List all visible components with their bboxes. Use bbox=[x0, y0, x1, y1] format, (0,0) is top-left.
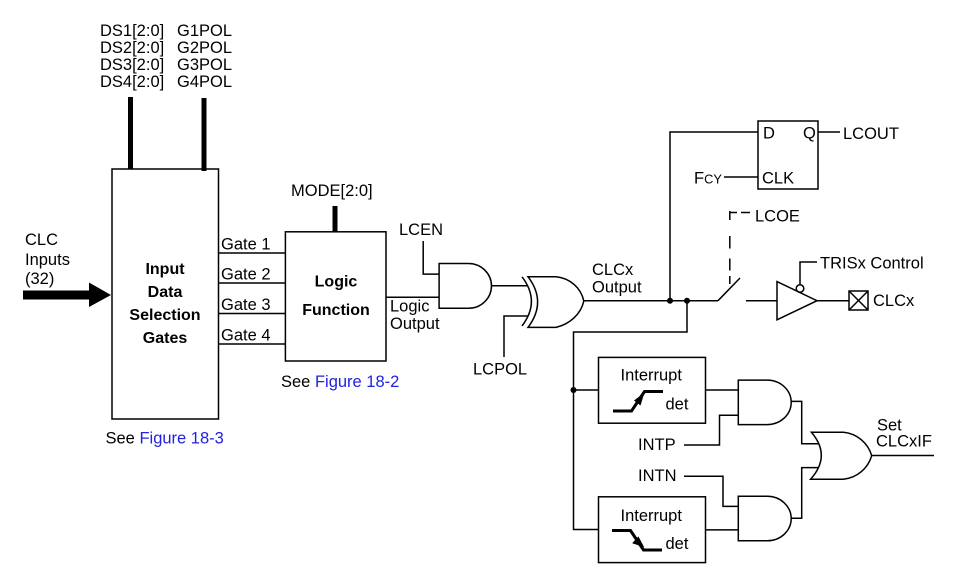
wire FCY to CLK bbox=[724, 176, 758, 178]
svg-text:Input: Input bbox=[145, 261, 185, 278]
wire Gate 3 bbox=[219, 313, 286, 315]
svg-text:INTP: INTP bbox=[638, 436, 676, 454]
block U1 Input Data Selection Gates bbox=[112, 169, 219, 419]
bus wire MODE bbox=[333, 206, 338, 232]
block U8 falling interrupt det bbox=[599, 497, 706, 563]
svg-text:D: D bbox=[763, 125, 775, 143]
svg-text:Interrupt: Interrupt bbox=[621, 367, 683, 385]
svg-text:LCPOL: LCPOL bbox=[473, 361, 527, 379]
svg-text:Interrupt: Interrupt bbox=[621, 507, 683, 525]
wire CLCx output bbox=[584, 300, 718, 302]
svg-text:DS2[2:0]: DS2[2:0] bbox=[100, 39, 164, 57]
svg-text:G1POL: G1POL bbox=[177, 22, 232, 40]
svg-text:FCY: FCY bbox=[694, 170, 722, 188]
svg-text:LCOUT: LCOUT bbox=[843, 125, 899, 143]
svg-text:MODE[2:0]: MODE[2:0] bbox=[291, 182, 373, 200]
junction node C bbox=[571, 387, 577, 393]
node label Set CLCxIF bbox=[876, 417, 932, 451]
wire logic output bbox=[386, 296, 439, 298]
wire switch to buffer bbox=[746, 300, 777, 302]
buffer U6 output driver bbox=[777, 282, 817, 320]
block U2 Logic Function bbox=[285, 232, 386, 361]
svg-text:DS3[2:0]: DS3[2:0] bbox=[100, 56, 164, 74]
wire INTP bbox=[684, 415, 738, 445]
svg-text:Inputs: Inputs bbox=[25, 251, 70, 269]
symbol falling edge bbox=[612, 531, 662, 551]
svg-text:G3POL: G3POL bbox=[177, 56, 232, 74]
svg-text:Logic: Logic bbox=[390, 298, 429, 316]
svg-text:Logic: Logic bbox=[315, 274, 358, 291]
svg-text:Q: Q bbox=[803, 125, 816, 143]
wire node C to rising det bbox=[574, 389, 599, 391]
wire INTN bbox=[684, 476, 738, 506]
bus arrow CLC inputs bbox=[23, 283, 111, 308]
svg-text:CLCxIF: CLCxIF bbox=[876, 433, 932, 451]
wire TRISx control bbox=[800, 262, 817, 285]
wire node B down to interrupt branch bbox=[574, 301, 688, 530]
node label CLCx Output bbox=[592, 261, 642, 297]
wire Set CLCxIF output bbox=[872, 455, 934, 457]
wire Gate 2 bbox=[219, 282, 286, 284]
wire dashed LCOE corner bbox=[730, 211, 750, 220]
and-gate U10 INTN gate bbox=[738, 496, 791, 541]
wire AND to XOR bbox=[492, 285, 529, 287]
svg-text:det: det bbox=[666, 396, 689, 414]
svg-text:See Figure 18-3: See Figure 18-3 bbox=[106, 430, 224, 448]
wire LCEN bbox=[423, 241, 439, 274]
wire INTP AND to OR bbox=[791, 401, 819, 443]
svg-text:Gate 3: Gate 3 bbox=[221, 296, 271, 314]
svg-text:CLCx: CLCx bbox=[873, 292, 915, 310]
switch SW1 bbox=[718, 278, 740, 301]
d-flipflop U5 bbox=[758, 121, 818, 189]
wire falling det to AND bbox=[706, 529, 739, 531]
bus wire DSx[2:0] bbox=[128, 97, 133, 169]
junction node A bbox=[667, 298, 673, 304]
wire buffer to pin bbox=[817, 300, 849, 302]
svg-text:Gate 1: Gate 1 bbox=[221, 236, 271, 254]
node label CLC Inputs (32) bbox=[25, 231, 70, 288]
svg-text:Gate 4: Gate 4 bbox=[221, 327, 271, 345]
svg-text:INTN: INTN bbox=[638, 467, 677, 485]
svg-text:DS4[2:0]: DS4[2:0] bbox=[100, 73, 164, 91]
block U7 rising interrupt det bbox=[599, 357, 706, 423]
svg-text:CLC: CLC bbox=[25, 231, 58, 249]
wire rising det to AND bbox=[706, 389, 739, 391]
svg-text:G4POL: G4POL bbox=[177, 73, 232, 91]
wire dashed LCOE control bbox=[729, 236, 731, 284]
svg-text:Function: Function bbox=[302, 302, 370, 319]
svg-text:G2POL: G2POL bbox=[177, 39, 232, 57]
svg-text:CLCx: CLCx bbox=[592, 261, 634, 279]
wire LCPOL bbox=[504, 316, 529, 357]
svg-text:Output: Output bbox=[592, 279, 642, 297]
svg-text:LCOE: LCOE bbox=[755, 208, 800, 226]
symbol rising edge bbox=[613, 392, 663, 412]
wire node A to D input bbox=[670, 132, 758, 301]
svg-text:Selection: Selection bbox=[129, 307, 200, 324]
svg-text:(32): (32) bbox=[25, 270, 54, 288]
junction node B bbox=[684, 298, 690, 304]
xor-gate U4 LCPOL gate bbox=[522, 277, 584, 328]
svg-text:See Figure 18-2: See Figure 18-2 bbox=[281, 373, 399, 391]
wire Q to LCOUT bbox=[818, 131, 840, 133]
wire INTN AND to OR bbox=[791, 468, 819, 519]
bus wire GxPOL bbox=[202, 98, 207, 171]
node label Logic Output bbox=[390, 298, 440, 334]
svg-text:det: det bbox=[666, 535, 689, 553]
svg-text:DS1[2:0]: DS1[2:0] bbox=[100, 22, 164, 40]
svg-text:TRISx Control: TRISx Control bbox=[820, 255, 924, 273]
svg-text:Gates: Gates bbox=[143, 330, 188, 347]
or-gate U11 Set CLCxIF bbox=[811, 432, 872, 479]
bubble tri-state enable bbox=[796, 285, 804, 293]
svg-text:CLK: CLK bbox=[762, 170, 794, 188]
and-gate U3 LCEN gate bbox=[439, 264, 491, 309]
svg-text:Data: Data bbox=[148, 284, 183, 301]
svg-text:LCEN: LCEN bbox=[399, 221, 443, 239]
pin CLCx bbox=[849, 291, 868, 310]
svg-text:Gate 2: Gate 2 bbox=[221, 266, 271, 284]
svg-text:Output: Output bbox=[390, 315, 440, 333]
wire Gate 4 bbox=[219, 343, 286, 345]
and-gate U9 INTP gate bbox=[738, 380, 791, 425]
wire Gate 1 bbox=[219, 252, 286, 254]
